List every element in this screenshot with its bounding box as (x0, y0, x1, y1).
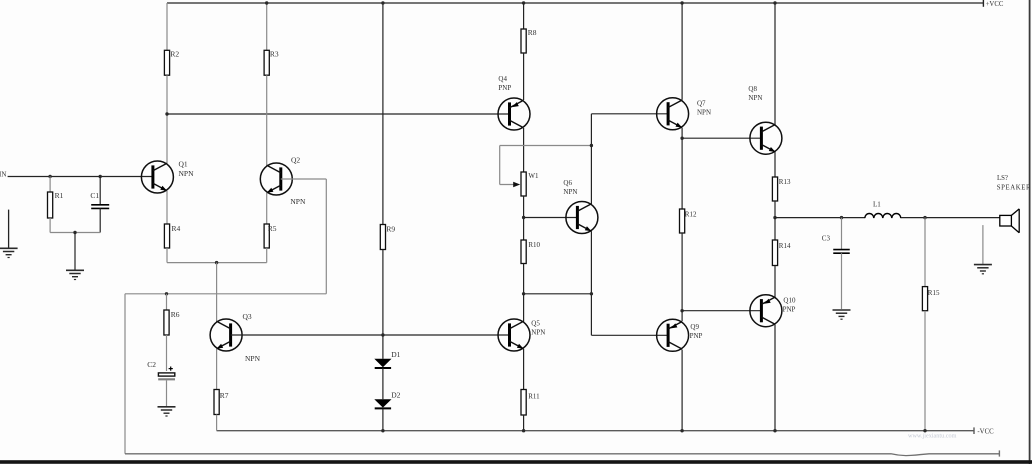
resistor R13 (772, 177, 791, 201)
wire W1 to R10 (523, 196, 525, 240)
resistor R5 (264, 224, 277, 248)
node junction Q8 collector rail (773, 1, 776, 4)
ground input jack (0, 210, 18, 258)
svg-text:R10: R10 (528, 241, 540, 249)
svg-text:Q1: Q1 (179, 159, 188, 168)
wire Q9 collector down (681, 350, 683, 431)
node junction C3 tap (840, 216, 843, 219)
svg-text:Q8: Q8 (748, 85, 757, 93)
wire to input ground (74, 233, 76, 270)
wire loop left down (124, 294, 126, 454)
svg-text:NPN: NPN (697, 108, 711, 116)
resistor R8 (521, 3, 537, 53)
resistor R4 (164, 224, 180, 248)
wire D2 to rail (382, 409, 384, 431)
svg-text:R2: R2 (170, 49, 179, 58)
transistor Q1 (141, 159, 194, 193)
wire Q2 base right (281, 178, 327, 180)
svg-text:PNP: PNP (498, 84, 511, 92)
wire Q7 collector up (681, 3, 683, 100)
ground C2 (158, 407, 176, 416)
node junction R11 rail (522, 429, 525, 432)
svg-text:LS?: LS? (997, 175, 1008, 182)
ground speaker (974, 265, 992, 274)
wire Q1 emitter to R4 (166, 191, 168, 224)
wire +VCC top rail (167, 2, 983, 4)
wire R1-C1 join (50, 232, 100, 234)
node junction R1 (48, 175, 51, 178)
svg-text:R12: R12 (685, 210, 697, 218)
resistor R7 (214, 390, 229, 415)
transistor Q4 PNP (498, 75, 530, 130)
resistor R1 (48, 177, 64, 219)
border bottom band (0, 460, 1032, 464)
wire feedback bottom (125, 454, 999, 456)
svg-text:R8: R8 (528, 28, 537, 37)
svg-text:-VCC: -VCC (977, 429, 994, 436)
wire R14 to Q10 (774, 266, 776, 297)
wire R7 to rail (216, 415, 218, 431)
transistor Q8 (748, 85, 782, 154)
wire R15 to rail (924, 311, 926, 431)
node junction gnd tap (73, 231, 76, 234)
node junction output (773, 216, 776, 219)
resistor R9 (380, 224, 395, 249)
svg-text:R4: R4 (172, 224, 181, 233)
svg-text:W1: W1 (528, 172, 539, 180)
node junction Q9 rail (680, 429, 683, 432)
diode D2 (374, 390, 400, 408)
wire Q8 base line (682, 137, 761, 139)
wire C3 to ground (841, 253, 843, 309)
svg-text:Q6: Q6 (563, 179, 572, 187)
transistor Q7 (657, 98, 711, 130)
wire loop horizontal (125, 293, 326, 295)
wire Q8 emitter to R13 (774, 152, 776, 177)
node junction R3 rail (265, 1, 268, 4)
svg-text:Q5: Q5 (531, 319, 540, 327)
svg-text:L1: L1 (873, 201, 881, 209)
node junction D1 top (381, 333, 384, 336)
wire Q4 collector to W1 (523, 128, 525, 172)
svg-text:NPN: NPN (290, 197, 306, 206)
power +VCC terminal (983, 0, 1003, 8)
wire Q8 collector up (774, 3, 776, 124)
svg-text:NPN: NPN (179, 169, 195, 178)
svg-text:Q10: Q10 (783, 297, 796, 305)
watermark (908, 433, 957, 440)
diode D1 (374, 350, 400, 368)
resistor R11 (521, 390, 540, 416)
wire R11 to rail (523, 415, 525, 431)
wire R10 down (523, 264, 525, 294)
node junction wiper net (590, 144, 593, 147)
node junction Q10 base tap (680, 309, 683, 312)
node junction E294 (590, 292, 593, 295)
svg-text:R7: R7 (220, 391, 229, 400)
svg-text:C3: C3 (822, 235, 831, 243)
speaker LS? (997, 175, 1031, 233)
svg-text:Q9: Q9 (690, 323, 699, 331)
wire tail down to Q3 (216, 263, 218, 323)
transistor Q5 (498, 319, 545, 351)
node feedback end terminal (998, 450, 1000, 456)
wire R13 to output (774, 201, 776, 218)
svg-text:IN: IN (0, 170, 6, 178)
wire Q7 emitter down (681, 128, 683, 209)
wire D1 to D2 (382, 368, 384, 399)
wire R5 bottom (266, 248, 268, 263)
svg-text:+VCC: +VCC (986, 1, 1004, 8)
wire rail to R3 (266, 3, 268, 50)
resistor R14 (772, 218, 791, 266)
wire loop right down (325, 179, 327, 294)
svg-text:R6: R6 (171, 310, 180, 319)
wire wiper to Q6 collector net (500, 145, 592, 147)
potentiometer W1 (521, 172, 539, 196)
svg-text:R3: R3 (270, 49, 279, 58)
node junction C1 (99, 175, 102, 178)
resistor R10 (521, 240, 541, 264)
wire R1 bottom (49, 218, 51, 233)
wire rail to R2 (166, 3, 168, 50)
svg-text:NPN: NPN (563, 188, 577, 196)
svg-text:R1: R1 (55, 191, 64, 200)
wire Q9 base line (591, 334, 668, 336)
ground C3 (833, 310, 851, 319)
svg-text:NPN: NPN (748, 94, 762, 102)
svg-text:PNP: PNP (690, 332, 703, 340)
wire C1 bottom (99, 208, 101, 232)
svg-text:R5: R5 (268, 224, 277, 233)
transistor Q9 PNP (657, 319, 703, 351)
wire Q7 base line (591, 113, 668, 115)
capacitor C1 (90, 177, 109, 209)
node junction R15 rail (923, 429, 926, 432)
svg-text:Q4: Q4 (498, 75, 507, 83)
svg-text:Q2: Q2 (291, 155, 300, 164)
node junction Q10 rail (773, 429, 776, 432)
wire W1 wiper arm (500, 146, 521, 188)
capacitor C3 (822, 218, 850, 254)
svg-text:PNP: PNP (783, 306, 796, 314)
svg-text:NPN: NPN (531, 328, 545, 336)
resistor R2 (164, 49, 179, 75)
wire Q6 base line (524, 217, 578, 219)
wire Q3 emitter to R7 (216, 349, 218, 390)
inductor L1 (865, 201, 901, 219)
wire R4 bottom (166, 248, 168, 263)
node junction R9 rail (381, 1, 384, 4)
resistor R15 (922, 218, 940, 311)
svg-text:Q7: Q7 (697, 99, 706, 107)
svg-text:D1: D1 (391, 350, 400, 359)
svg-text:C2: C2 (147, 360, 156, 369)
ground input filter (66, 270, 84, 279)
node junction Q6 base (522, 216, 525, 219)
wire R6 to C2 (166, 335, 168, 371)
node junction R6 top (165, 292, 168, 295)
node junction D2 rail (381, 429, 384, 432)
wire Q4 base line (167, 113, 509, 115)
transistor Q10 PNP (750, 295, 796, 327)
node junction R8 rail (522, 1, 525, 4)
transistor Q2 (260, 155, 306, 206)
svg-text:NPN: NPN (245, 354, 261, 363)
svg-text:R9: R9 (386, 224, 395, 233)
wire output to L1 (775, 217, 865, 219)
transistor Q6 (563, 179, 598, 233)
svg-text:Q3: Q3 (243, 312, 252, 321)
wire R9 to node (382, 250, 384, 336)
node junction Q8 base tap (680, 137, 683, 140)
node junction Q7 collector rail (680, 1, 683, 4)
svg-text:www.jiexiantu.com: www.jiexiantu.com (908, 433, 957, 440)
power -VCC terminal (974, 427, 994, 435)
wire Q3 base line (231, 334, 509, 336)
wire Q6 collector up (590, 114, 592, 204)
wire Q5 collector link (524, 293, 592, 295)
wire R4-R5 join (167, 262, 267, 264)
wire Q5 emitter to R11 (523, 349, 525, 390)
resistor R3 (264, 49, 279, 75)
wire speaker ground stem (982, 225, 984, 264)
svg-text:R15: R15 (928, 289, 940, 297)
wire rail to R9 (382, 3, 384, 225)
resistor R6 (164, 294, 180, 335)
node IN input wire (0, 170, 153, 178)
node junction R15 tap (923, 216, 926, 219)
wire L1 to speaker (901, 217, 1000, 219)
wire bottom negative rail (217, 430, 974, 432)
svg-text:R11: R11 (528, 392, 540, 400)
node junction tail (215, 261, 218, 264)
capacitor C2 polarized (147, 360, 175, 379)
svg-text:SPEAKER: SPEAKER (997, 184, 1031, 191)
resistor R12 (680, 209, 697, 233)
wire down to Q5 (523, 294, 525, 322)
wire R8 to Q4 emitter (523, 53, 525, 100)
wire C2 to ground (166, 380, 168, 406)
wire R12 down (681, 233, 683, 321)
svg-text:C1: C1 (90, 191, 99, 200)
wire Q10 base line (682, 310, 761, 312)
transistor Q3 (210, 312, 260, 363)
border right edge (1029, 0, 1031, 464)
wire Q2 emitter to R5 (266, 193, 268, 224)
wire node to D1 (382, 335, 384, 359)
node junction Q4 base line (165, 112, 168, 115)
wire Q10 collector down (774, 325, 776, 431)
svg-text:R13: R13 (779, 178, 791, 186)
wire R3 to Q2 collector (266, 75, 268, 166)
wire R2 to Q1 collector (166, 75, 168, 164)
svg-text:D2: D2 (391, 390, 400, 399)
svg-text:R14: R14 (779, 242, 791, 250)
node junction Q5 collector net (522, 292, 525, 295)
wire Q6 emitter down (590, 231, 592, 335)
